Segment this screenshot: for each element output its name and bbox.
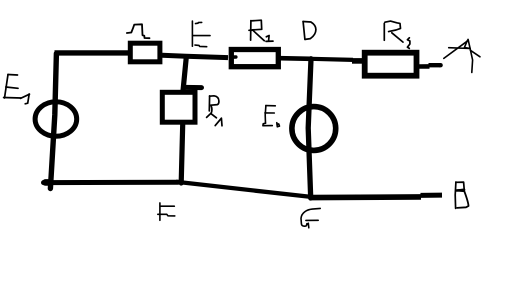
wire: stub at R1 top right xyxy=(185,85,201,90)
resistor R1 box xyxy=(162,92,195,122)
voltage source Eb circle xyxy=(292,107,336,151)
wire: sloped rail node F to node G xyxy=(176,182,311,197)
wire: bottom left horizontal rail xyxy=(44,180,179,185)
wire: left vertical branch through E1 xyxy=(50,53,56,188)
wire: node D down through Eb to node G xyxy=(308,59,311,198)
wire: thick stub into R3 left xyxy=(352,58,365,64)
terminal B end blob xyxy=(421,193,443,198)
pulse symbol label above resistor xyxy=(127,24,150,38)
resistor R2 box xyxy=(231,50,278,67)
resistor r (pulse-labeled) box xyxy=(130,43,160,62)
wire: node D to R3 xyxy=(311,59,353,60)
wire: pulse resistor to R2 through node E xyxy=(162,55,228,57)
wire: R1 down to node F xyxy=(181,125,183,183)
label E1 xyxy=(4,75,30,104)
terminal A end blob xyxy=(429,63,441,67)
node D label xyxy=(303,22,316,40)
wire: R2 to node D xyxy=(280,56,311,61)
voltage source E1 circle xyxy=(35,102,77,137)
node F label xyxy=(158,203,175,220)
label R2 xyxy=(249,20,273,41)
node E label xyxy=(192,21,210,47)
label A xyxy=(444,39,480,72)
wire: node E down to R1 xyxy=(183,57,186,91)
resistor R3 box xyxy=(365,53,417,76)
wire: node G to terminal B xyxy=(311,194,421,200)
label Eb xyxy=(263,106,280,127)
node B label xyxy=(455,182,468,208)
label R3 xyxy=(384,21,410,48)
wire: bottom left end blob xyxy=(45,179,48,186)
label R1 xyxy=(207,96,222,126)
wire: top left horizontal xyxy=(55,50,129,55)
wire: R3 to terminal A xyxy=(419,64,430,69)
node G label xyxy=(301,208,320,227)
wire: stub inside R2 left xyxy=(231,55,236,59)
